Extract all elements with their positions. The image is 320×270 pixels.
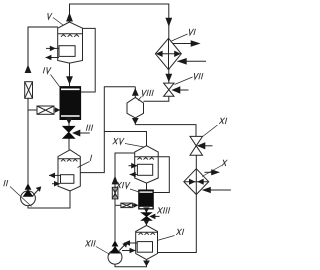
vessel XI demister marks	[139, 233, 155, 235]
vessel XI coil inlet stub	[122, 250, 136, 252]
arrow up on left riser	[25, 65, 32, 74]
label XV	[113, 138, 124, 144]
vessel I demister line	[58, 158, 80, 160]
leader IV	[51, 75, 60, 87]
arrow XIV to XIII	[143, 207, 149, 213]
arrow into valve VII	[180, 89, 189, 91]
leader VIII	[138, 97, 142, 101]
label IV	[43, 67, 51, 73]
VI vertical axis	[168, 38, 170, 69]
vessel IV body	[60, 87, 81, 120]
wire VIII bottom to valve XI	[135, 125, 196, 137]
arrow into valve XIII	[154, 215, 160, 217]
VI air in arrow bottom right	[186, 60, 206, 62]
leader V	[53, 18, 63, 26]
label VI	[188, 29, 196, 35]
wire X bottom to vessel XI right	[158, 195, 197, 253]
wire riser down to pump XII	[114, 205, 116, 241]
leader XI vessel	[157, 236, 175, 241]
leader VI	[172, 34, 188, 41]
X internal double arrow inward	[185, 181, 209, 183]
arrow down below VIII	[132, 118, 139, 124]
wire XIV bottom to valve XIII to vessel XI	[145, 209, 147, 225]
label II	[4, 180, 8, 186]
vessel I coil outlet stub	[49, 174, 61, 176]
small X-rect capsule on riser	[112, 187, 118, 199]
X air out arrow top right	[205, 171, 213, 173]
arrow down at XI bottom	[143, 261, 150, 267]
vessel XV demister line	[135, 156, 159, 158]
arrow into valve XI	[205, 145, 213, 147]
valve VII (open bowtie)	[164, 83, 174, 90]
valve III (filled)	[63, 126, 75, 138]
wire VIII bottom down	[134, 118, 136, 125]
leader XII	[96, 247, 110, 255]
vessel VIII hexagon	[127, 97, 144, 118]
vessel I outline	[58, 150, 80, 191]
wire VI bottom to VII top	[168, 70, 170, 84]
vessel V coil	[59, 46, 75, 57]
vessel V demister marks	[61, 34, 79, 36]
vessel V outline	[58, 22, 83, 63]
leader XIV	[130, 189, 139, 192]
wire V bottom to IV top	[69, 63, 71, 87]
arrow up into corner above VIII	[132, 88, 139, 96]
leader VII	[175, 77, 193, 85]
condenser VI diamond	[155, 38, 181, 69]
vessel XV demister marks	[138, 157, 154, 159]
arrow down into VI	[165, 18, 172, 27]
arrow V to IV	[66, 76, 73, 85]
arrow into IV left	[55, 107, 60, 113]
valve XIII (filled)	[141, 213, 151, 221]
vessel I demister marks	[61, 159, 77, 161]
arrow IV to III	[66, 118, 73, 125]
vessel XV coil	[137, 164, 152, 175]
vessel V coil outlet stub	[46, 57, 59, 59]
arrow up on riser x=115	[112, 176, 119, 185]
label XIII	[157, 207, 170, 213]
vessel I coil inlet stub	[52, 183, 60, 185]
vessel XV outline	[135, 146, 159, 183]
wire pump XII suction from vessel XI bottom	[115, 260, 147, 267]
wire from X-rect to IV	[54, 109, 60, 111]
label III	[86, 125, 93, 131]
label VIII	[141, 90, 154, 96]
X vertical axis	[195, 169, 197, 195]
pump XII	[108, 240, 127, 264]
wire XV right to XIV right	[153, 157, 169, 193]
wire V top to top line and down to VI	[70, 4, 169, 38]
leader II	[10, 187, 32, 207]
arrow XIII to vessel XI	[143, 220, 149, 226]
cooler X diamond	[184, 169, 209, 195]
X air in arrow bottom right	[211, 189, 231, 191]
label X	[222, 160, 228, 166]
wire valve XI to cooler X	[195, 155, 197, 169]
arrow into XIV left	[132, 204, 134, 206]
label XI valve	[219, 118, 227, 124]
vessel I coil	[61, 175, 74, 184]
label XIV	[116, 182, 130, 188]
vessel XI outline	[136, 225, 158, 259]
arrow into valve III	[80, 132, 90, 134]
vessel V coil inlet stub	[46, 47, 59, 49]
vessel XV coil inlet stub	[129, 165, 138, 167]
vessel XI coil outlet stub	[124, 242, 137, 244]
wire branch to IV with X-rect	[28, 109, 37, 111]
leader X	[202, 166, 222, 177]
wire y=131.5 from riser to XV top	[104, 132, 146, 146]
label VII	[193, 73, 203, 79]
leader I	[78, 162, 90, 168]
valve XI (open bowtie)	[190, 136, 203, 145]
wire riser branch to XIV with X-rect	[115, 204, 121, 206]
vessel XI demister line	[136, 231, 158, 233]
label XII	[85, 240, 95, 246]
wire XV left line from riser	[115, 153, 135, 205]
wire vessel I right to riser x=104 up to VIII	[80, 87, 135, 173]
vessel XI coil	[137, 242, 152, 253]
vessel V demister line	[58, 33, 83, 35]
heat exchanger (horizontal rect with X) before IV	[37, 106, 54, 114]
label XI vessel	[176, 229, 184, 235]
leader XV	[125, 144, 144, 148]
VI internal double arrow outward	[158, 53, 179, 55]
wire IV bottom to valve III to vessel I	[68, 120, 70, 150]
label I	[90, 155, 92, 161]
VI air out arrow top right	[173, 43, 192, 45]
vessel XV coil outlet stub	[130, 174, 138, 176]
leader XI valve	[202, 125, 218, 137]
arrow up above V	[66, 12, 73, 21]
heat exchanger (vertical rect with X) on left riser	[25, 82, 33, 99]
wire VIII top vertex up	[134, 87, 136, 98]
wire left riser lower	[27, 98, 29, 191]
label V	[46, 13, 52, 19]
vessel XIV body	[139, 190, 154, 209]
wire XV bottom to XIV top	[146, 183, 148, 190]
wire vessel I bottom to pump II	[28, 191, 70, 208]
wire V right shoulder to IV right (via riser x=95)	[81, 28, 96, 92]
heat exchanger (small X-rect) before XIV	[121, 203, 132, 208]
pump II	[21, 183, 42, 205]
wire VII bottom to VIII	[144, 96, 169, 101]
arrow VI to VII	[165, 74, 172, 83]
wire top-left riser horizontal to V	[28, 27, 58, 71]
